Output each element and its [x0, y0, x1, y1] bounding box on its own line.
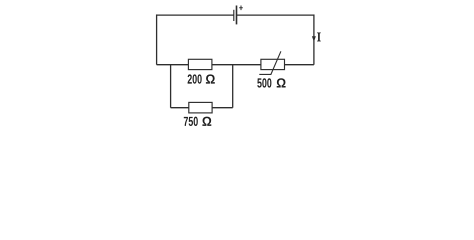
wire parallel branch right vertical [232, 65, 234, 108]
battery B1 positive long bar [236, 6, 238, 25]
thermistor R2 500 ohm box [261, 59, 285, 69]
wire middle segment left [157, 64, 189, 66]
label R2 value 500 ohm [257, 78, 261, 87]
label R3 value 750 ohm [184, 117, 188, 126]
wire middle segment right [285, 64, 314, 66]
resistor R3 750 ohm box [189, 102, 212, 113]
wire bottom segment left [171, 107, 189, 109]
wire left vertical [156, 14, 158, 64]
wire bottom segment right [212, 107, 233, 109]
wire middle segment center [212, 64, 261, 66]
thermistor R2 bent diagonal stroke [259, 51, 281, 74]
battery B1 plus polarity label [239, 6, 243, 11]
wire right vertical [313, 14, 315, 64]
label R1 value 200 ohm [188, 74, 192, 83]
battery B1 negative short bar [233, 10, 235, 21]
current label I [317, 33, 320, 42]
wire parallel branch left vertical [170, 65, 172, 108]
current direction arrow head on right wire [312, 36, 316, 42]
resistor R1 200 ohm box [188, 59, 212, 69]
wire top left segment [157, 14, 234, 16]
wire top right segment [237, 14, 314, 16]
